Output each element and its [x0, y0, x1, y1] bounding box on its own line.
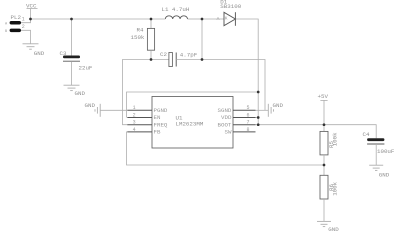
resistor R6: [320, 175, 328, 199]
svg-text:PL2: PL2: [11, 14, 22, 21]
wire EN net: [127, 92, 259, 118]
svg-text:150k: 150k: [131, 34, 145, 41]
IC U1 box: [152, 97, 233, 149]
connector PL2 pad 2: [10, 29, 21, 32]
pin 7 BOOT: [233, 124, 256, 126]
pin 3 FREQ: [127, 124, 152, 126]
pin 2 EN: [127, 117, 152, 119]
node BOOT/output: [257, 123, 260, 126]
svg-text:FB: FB: [154, 129, 161, 136]
wire PL2 pin2 to ground: [21, 30, 31, 43]
wire node SW to diode anode: [202, 18, 224, 20]
svg-text:SGND: SGND: [218, 107, 232, 114]
wire VCC rail top: [31, 18, 166, 20]
ground left of pin 1: [95, 104, 100, 117]
wire C3 to ground: [71, 61, 73, 85]
svg-text:GND: GND: [379, 172, 390, 179]
node VCC/PL2: [29, 18, 32, 21]
svg-text:SB3100: SB3100: [220, 3, 241, 10]
wire R4 node to C2: [151, 59, 169, 61]
svg-text:EN: EN: [154, 114, 161, 121]
ground under C3: [64, 85, 80, 90]
wire C2 net left corner to FREQ: [123, 60, 152, 125]
svg-text:SW: SW: [225, 129, 232, 136]
node R4 top: [150, 18, 153, 21]
svg-text:GND: GND: [273, 102, 284, 109]
svg-text:+5V: +5V: [318, 93, 329, 100]
svg-text:2: 2: [133, 112, 136, 118]
ground under R6: [317, 221, 331, 226]
node C3 tap: [70, 18, 73, 21]
svg-text:1: 1: [22, 17, 25, 23]
svg-text:1: 1: [133, 105, 136, 111]
svg-text:BOOT: BOOT: [218, 121, 232, 128]
svg-text:22uF: 22uF: [79, 65, 93, 72]
svg-text:8: 8: [247, 127, 250, 133]
svg-text:2: 2: [22, 24, 25, 30]
node EN/output: [257, 91, 260, 94]
svg-text:5: 5: [247, 105, 250, 111]
svg-text:6: 6: [247, 112, 250, 118]
pin 4 FB: [127, 131, 152, 133]
pin 6 VDD: [233, 117, 256, 119]
capacitor C3: [63, 56, 80, 59]
capacitor C4: [367, 138, 384, 141]
ground under PL2: [23, 44, 39, 49]
wire C2 right to bypass corner: [176, 60, 265, 111]
ground under C4: [369, 165, 383, 170]
wire R4 to C2 row: [150, 50, 152, 59]
resistor R4: [147, 28, 154, 50]
wire VDD to output vertical: [256, 117, 259, 119]
svg-text:3: 3: [133, 120, 136, 126]
inductor L1: [165, 16, 187, 19]
svg-text:100uF: 100uF: [377, 148, 395, 155]
svg-text:GND: GND: [75, 90, 86, 97]
svg-text:FREQ: FREQ: [154, 121, 168, 128]
svg-text:PGND: PGND: [154, 107, 168, 114]
wire SW node vertical: [201, 19, 203, 60]
svg-text:L1 4.7uH: L1 4.7uH: [162, 6, 190, 13]
wire VCC rail to R4: [150, 19, 152, 28]
svg-text:100k: 100k: [332, 132, 339, 146]
pin 5 DGND: [233, 109, 256, 111]
svg-text:7: 7: [247, 120, 250, 126]
supply VCC symbol: [27, 9, 38, 20]
wire +5V rail: [256, 125, 377, 139]
ground right of pin 5: [268, 104, 273, 117]
wire FB net: [127, 132, 325, 165]
svg-text:GND: GND: [328, 226, 339, 233]
resistor R5: [320, 131, 328, 155]
svg-text:A: A: [217, 16, 220, 22]
wire FB rail to R6: [323, 165, 325, 175]
wire R5 to FB rail: [323, 155, 325, 165]
supply +5V symbol: [320, 100, 327, 124]
svg-text:4: 4: [133, 127, 136, 133]
svg-text:K: K: [225, 16, 228, 22]
svg-text:C2: C2: [160, 51, 167, 58]
svg-text:100k: 100k: [332, 181, 339, 195]
svg-text:VDD: VDD: [221, 114, 232, 121]
diode D1: [224, 12, 235, 26]
wire PGND to ground: [100, 109, 127, 111]
svg-text:VCC: VCC: [26, 3, 37, 10]
svg-text:LM2623MM: LM2623MM: [176, 120, 204, 127]
node SW/C2: [201, 58, 204, 61]
capacitor C2: [169, 53, 173, 67]
pin 8 SW: [233, 131, 256, 133]
wire R6 to ground: [323, 199, 325, 221]
wire L1 to node SW: [188, 18, 203, 20]
node VDD/output: [257, 116, 260, 119]
svg-text:4.7pF: 4.7pF: [180, 51, 198, 58]
svg-text:C4: C4: [363, 131, 370, 138]
node +5V rail: [323, 123, 326, 126]
svg-text:R4: R4: [137, 26, 144, 33]
svg-text:GND: GND: [85, 102, 96, 109]
wire DGND to ground: [256, 109, 269, 111]
wire VCC rail to C3: [71, 19, 73, 56]
node R4 bottom: [150, 58, 153, 61]
wire C4 to ground: [375, 144, 377, 165]
connector PL2 pad 1: [10, 21, 21, 25]
pin 1 PGND: [127, 109, 152, 111]
node R5/R6 divider: [323, 164, 326, 167]
wire PL2 pin1 to VCC rail: [21, 19, 31, 23]
node SW top: [201, 18, 204, 21]
wire +5V to R5: [323, 125, 325, 132]
wire diode cathode to output corner: [235, 19, 258, 125]
svg-text:GND: GND: [34, 50, 45, 57]
